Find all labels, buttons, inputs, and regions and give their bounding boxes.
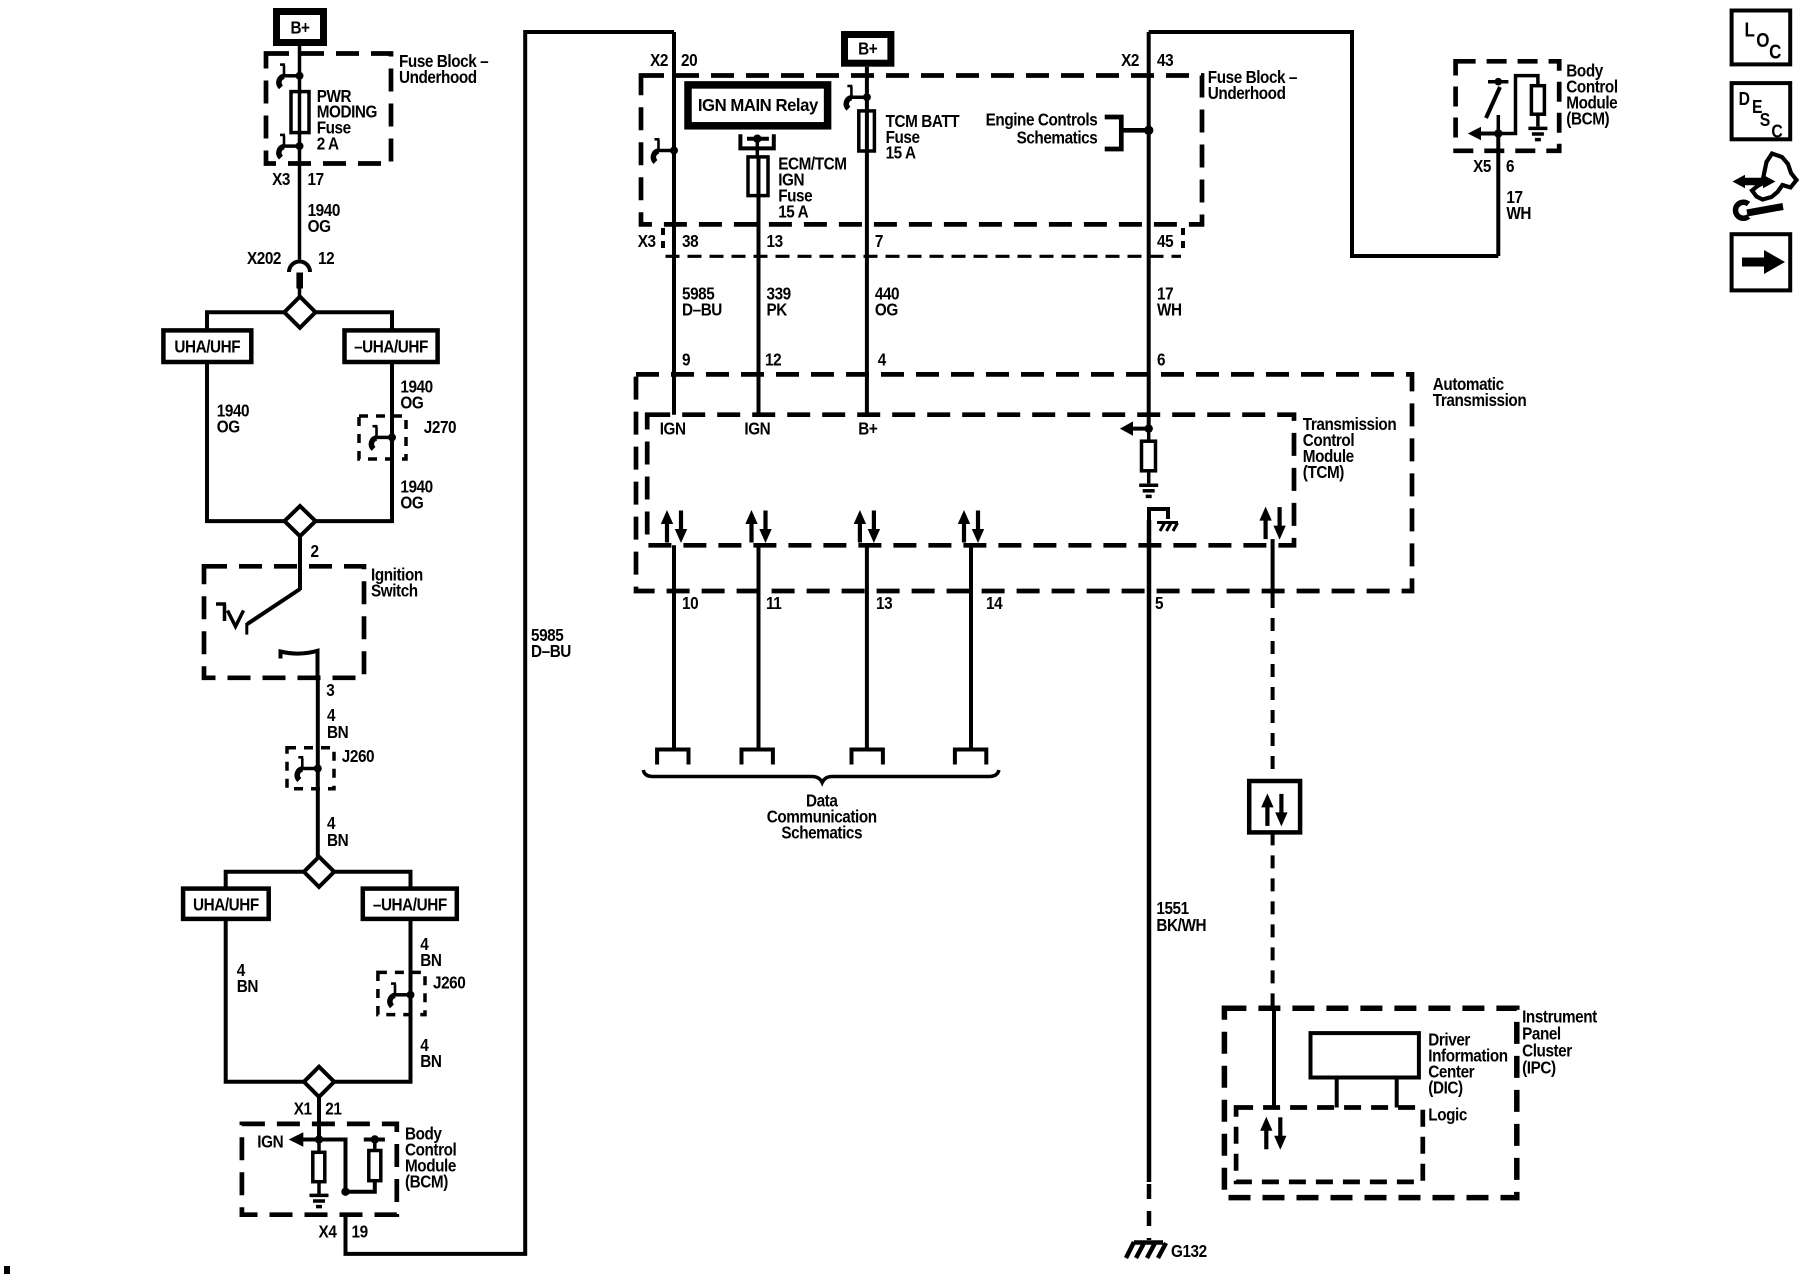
node -UHA/UHF (lower right) <box>363 889 457 919</box>
label DIC <box>1428 1029 1508 1097</box>
relay label box IGN MAIN Relay <box>688 85 828 126</box>
wire B+ down to TCM pin 4 <box>865 67 869 415</box>
splice pack J270 dashed box <box>359 416 406 459</box>
wire X5/6 down <box>1496 134 1500 257</box>
svg-text:BN: BN <box>420 1051 441 1071</box>
fuse block underhood (left) dashed box <box>266 54 391 164</box>
ground in BCM top <box>1528 128 1547 139</box>
wire label 17 WH right <box>1506 187 1531 223</box>
svg-text:J260: J260 <box>433 972 465 992</box>
svg-text:O: O <box>1756 28 1769 51</box>
wire label 5985 D-BU (long wire) <box>531 625 571 661</box>
svg-text:(DIC): (DIC) <box>1428 1077 1462 1097</box>
svg-text:PK: PK <box>767 299 788 319</box>
svg-text:Schematics: Schematics <box>1017 128 1098 148</box>
svg-text:J270: J270 <box>424 417 456 437</box>
svg-text:B+: B+ <box>290 17 310 37</box>
svg-text:19: 19 <box>352 1221 368 1241</box>
svg-text:3: 3 <box>326 680 334 700</box>
splice diamond S1 <box>284 297 315 328</box>
wire splice to UHA/UHF left <box>207 312 284 330</box>
label data communication schematics <box>767 790 877 842</box>
svg-text:6: 6 <box>1157 349 1165 369</box>
splice terminal inside J260 lower <box>390 984 415 1007</box>
TCM dashed box <box>647 415 1294 546</box>
svg-text:X1: X1 <box>294 1098 312 1118</box>
wire from B+ down to X202 <box>298 46 302 260</box>
icon DESC <box>1732 83 1791 142</box>
connector terminal on X2/20 wire <box>653 139 678 162</box>
svg-text:15 A: 15 A <box>778 201 808 221</box>
relay output bracket <box>740 134 773 157</box>
wire TCM pin 10 down <box>672 545 676 748</box>
body control module (bottom) dashed box <box>242 1124 397 1215</box>
svg-text:UHA/UHF: UHA/UHF <box>174 336 240 356</box>
engine controls schematics reference <box>986 110 1154 149</box>
svg-text:14: 14 <box>986 593 1003 613</box>
wire splice3 to -UHA/UHF right lower <box>334 872 410 889</box>
label Ignition Switch <box>371 564 423 600</box>
wire label 4 BN lower right upper <box>420 934 441 970</box>
svg-text:BN: BN <box>327 830 348 850</box>
svg-text:L: L <box>1745 18 1755 41</box>
svg-text:12: 12 <box>318 248 334 268</box>
brace data communication <box>643 770 999 783</box>
label PWR MODING Fuse 2A <box>317 86 377 154</box>
svg-text:17: 17 <box>308 169 324 189</box>
svg-text:20: 20 <box>681 50 697 70</box>
svg-text:X5: X5 <box>1473 156 1491 176</box>
label BCM top <box>1566 60 1617 128</box>
wire TCM pin 11 down <box>757 545 761 748</box>
svg-text:C: C <box>1769 40 1781 63</box>
body control module (top right) dashed box <box>1456 61 1560 151</box>
svg-text:BN: BN <box>237 976 258 996</box>
svg-text:D–BU: D–BU <box>682 299 722 319</box>
wire label 1551 BK/WH <box>1156 898 1206 935</box>
ignition switch contact mark <box>216 604 244 627</box>
label BCM bottom <box>405 1123 456 1191</box>
ignition switch output contact arc <box>281 651 318 678</box>
svg-text:X3: X3 <box>272 169 290 189</box>
svg-text:OG: OG <box>308 216 331 236</box>
svg-text:X3: X3 <box>638 231 656 251</box>
svg-text:IGN MAIN Relay: IGN MAIN Relay <box>698 94 819 115</box>
switch in BCM <box>1486 78 1508 134</box>
battery feed B+ symbol (middle) <box>845 35 891 64</box>
svg-text:(BCM): (BCM) <box>405 1171 448 1191</box>
ignition switch blade <box>247 589 300 635</box>
svg-text:(TCM): (TCM) <box>1303 462 1344 482</box>
wire BCM to fuse block X2/43 <box>1149 32 1499 256</box>
automatic transmission dashed box <box>636 374 1412 591</box>
terminal ends of data wires <box>657 750 688 765</box>
wire TCM pin 5 down to G132 <box>1147 520 1152 1182</box>
svg-text:X4: X4 <box>319 1221 338 1241</box>
connector X202 symbol <box>289 262 310 298</box>
connector terminal (bottom) on PWR MODING fuse <box>279 135 304 158</box>
fuse block underhood (middle) dashed box <box>641 76 1202 225</box>
connector terminal (top) on PWR MODING fuse <box>279 65 304 88</box>
label automatic transmission <box>1433 374 1527 410</box>
svg-text:OG: OG <box>875 299 898 319</box>
svg-text:UHA/UHF: UHA/UHF <box>193 894 259 914</box>
svg-text:WH: WH <box>1157 299 1182 319</box>
wire left branch down <box>207 362 285 521</box>
TCM pin function labels <box>660 418 878 438</box>
serial data box with arrows <box>1249 781 1300 832</box>
svg-text:BN: BN <box>420 950 441 970</box>
instrument panel cluster dashed box <box>1224 1008 1516 1197</box>
TCM internal arrow on pin 6 <box>1120 421 1153 435</box>
fuse ECM/TCM IGN <box>748 153 847 221</box>
node junction in BCM <box>341 1188 349 1196</box>
svg-text:7: 7 <box>875 231 883 251</box>
svg-text:2: 2 <box>311 541 319 561</box>
splice diamond S3 <box>304 857 334 887</box>
connector X3 row second dashed line <box>666 255 1182 258</box>
connector X202 pin 12 label <box>247 248 334 268</box>
resistor in TCM <box>1142 429 1156 484</box>
connector terminal on B+ wire <box>846 86 871 109</box>
wire ignition switch to J260 <box>316 678 320 857</box>
wire label 5985 D-BU <box>682 283 722 319</box>
label IPC <box>1522 1006 1598 1077</box>
wire right branch down through J270 <box>316 362 393 521</box>
wire label 1940 OG <box>308 200 340 236</box>
wire X4 19 to fuse block X2 20 (long loop) <box>346 32 675 1254</box>
logic dashed box <box>1236 1108 1423 1182</box>
svg-text:–UHA/UHF: –UHA/UHF <box>373 894 447 914</box>
label fuse block middle <box>1208 67 1297 103</box>
svg-text:IGN: IGN <box>660 418 686 438</box>
ground G132 symbol <box>1126 1242 1166 1258</box>
wire TCM pin 13 down <box>865 545 869 748</box>
svg-text:BN: BN <box>327 722 348 742</box>
splice terminal inside J260 <box>297 757 322 780</box>
wire label 4 BN lower left <box>237 960 258 996</box>
svg-text:6: 6 <box>1506 156 1514 176</box>
svg-text:WH: WH <box>1506 203 1531 223</box>
splice diamond S4 <box>304 1067 334 1097</box>
svg-text:5: 5 <box>1155 593 1163 613</box>
node UHA/UHF (lower left) <box>183 889 269 919</box>
wire X2/20 down to TCM pin 9 <box>672 32 676 415</box>
svg-text:38: 38 <box>682 231 698 251</box>
pin label X2 20 <box>650 50 697 70</box>
dashed wire to G132 <box>1147 1184 1152 1240</box>
svg-text:43: 43 <box>1157 50 1173 70</box>
wire label 1940 OG below J270 <box>400 476 432 512</box>
svg-text:Logic: Logic <box>1428 1104 1467 1124</box>
svg-text:–UHA/UHF: –UHA/UHF <box>354 336 428 356</box>
svg-text:2 A: 2 A <box>317 133 339 153</box>
wire lower-right branch through J260 <box>334 919 410 1082</box>
svg-text:4: 4 <box>878 349 887 369</box>
resistor in BCM top <box>1498 76 1544 134</box>
svg-text:13: 13 <box>876 593 892 613</box>
splice pack J260 dashed box (upper) <box>287 748 334 789</box>
svg-text:IGN: IGN <box>257 1131 283 1151</box>
svg-text:Underhood: Underhood <box>1208 83 1286 103</box>
pin labels X3 row <box>638 231 1174 251</box>
wire into ignition switch <box>298 536 302 590</box>
splice pack J260 dashed box (lower) <box>378 972 425 1014</box>
pin label X2 43 <box>1121 50 1173 70</box>
wire label 4 BN below J260 <box>327 813 348 850</box>
svg-text:S: S <box>1760 109 1770 131</box>
svg-text:X202: X202 <box>247 248 281 268</box>
resistor R1 in BCM <box>313 1140 325 1196</box>
pin label X4 19 <box>319 1221 368 1241</box>
wire X2/43 down to TCM pin 6 <box>1147 32 1151 429</box>
svg-text:OG: OG <box>217 416 240 436</box>
svg-text:X2: X2 <box>650 50 668 70</box>
wire label 17 WH <box>1157 283 1182 319</box>
svg-text:X2: X2 <box>1121 50 1139 70</box>
icon LOC <box>1732 11 1791 65</box>
resistor R2 in BCM <box>346 1135 385 1191</box>
ground in BCM <box>310 1195 329 1206</box>
node -UHA/UHF (upper right) <box>345 330 438 362</box>
wire into BCM X1 21 <box>317 1097 321 1140</box>
svg-text:Schematics: Schematics <box>781 822 862 842</box>
pin label X3 17 <box>272 169 324 189</box>
TCM serial data arrow pairs <box>661 510 687 543</box>
ignition switch dashed box <box>204 566 364 678</box>
svg-text:11: 11 <box>766 593 781 613</box>
page artifact dot bottom-left <box>4 1266 10 1274</box>
arrow pair in logic box <box>1260 1117 1286 1150</box>
svg-text:IGN: IGN <box>744 418 770 438</box>
ground in TCM <box>1139 485 1158 496</box>
wire fuse 13 down to TCM pin 12 <box>757 157 761 415</box>
icon forward arrow <box>1732 234 1791 290</box>
wire splice3 to UHA/UHF left lower <box>226 872 304 889</box>
svg-text:G132: G132 <box>1171 1241 1207 1261</box>
svg-text:13: 13 <box>767 231 783 251</box>
connector X3 tick left <box>661 228 665 253</box>
wire label 1940 OG left branch <box>217 400 249 436</box>
svg-text:10: 10 <box>682 593 698 613</box>
wire label 1940 OG right branch upper <box>400 376 432 412</box>
svg-text:21: 21 <box>325 1098 341 1118</box>
svg-text:Transmission: Transmission <box>1433 390 1527 410</box>
pin label X5 6 <box>1473 156 1514 176</box>
wire TCM pin 14 down <box>969 545 973 748</box>
svg-text:12: 12 <box>765 349 781 369</box>
TCM pin labels 9 12 4 6 <box>682 349 1165 369</box>
svg-text:C: C <box>1771 120 1782 142</box>
wire from BCM junction to X4 19 <box>319 1140 346 1192</box>
splice terminal inside J270 <box>371 426 396 449</box>
label fuse block left <box>399 51 488 87</box>
wire label 4 BN <box>327 705 348 742</box>
svg-text:D–BU: D–BU <box>531 641 571 661</box>
svg-text:B+: B+ <box>858 38 878 58</box>
node UHA/UHF (upper left) <box>163 330 251 362</box>
DIC display box <box>1311 1033 1419 1107</box>
splice diamond S2 <box>285 506 316 536</box>
svg-text:45: 45 <box>1157 231 1173 251</box>
svg-text:BK/WH: BK/WH <box>1156 915 1206 935</box>
output arrow in BCM <box>1468 127 1503 140</box>
svg-text:15 A: 15 A <box>886 142 916 162</box>
svg-text:Underhood: Underhood <box>399 67 477 87</box>
svg-text:D: D <box>1739 88 1750 110</box>
svg-text:Switch: Switch <box>371 580 418 600</box>
fuse TCM BATT <box>859 111 961 163</box>
svg-text:J260: J260 <box>342 746 374 766</box>
IGN signal arrow in BCM <box>257 1131 323 1151</box>
fuse PWR MODING F <box>291 92 309 133</box>
svg-text:9: 9 <box>682 349 690 369</box>
pin labels 10 11 13 14 5 <box>682 593 1163 613</box>
svg-text:(IPC): (IPC) <box>1522 1057 1556 1077</box>
wire label 339 PK <box>767 283 791 319</box>
svg-text:B+: B+ <box>858 418 878 438</box>
battery feed B+ symbol (left) <box>277 12 324 43</box>
pin label X1 21 <box>294 1098 342 1118</box>
label TCM <box>1303 414 1397 482</box>
wire lower-left branch <box>226 919 304 1082</box>
wire label 440 OG <box>875 283 899 319</box>
svg-text:OG: OG <box>400 492 423 512</box>
dashed wire TCM to IPC serial data <box>1273 539 1274 1107</box>
connector X3 tick right <box>1181 228 1185 253</box>
TCM internal chassis ground for pin 5 <box>1149 509 1178 531</box>
wire label 4 BN below J260 lower <box>420 1035 441 1071</box>
svg-text:(BCM): (BCM) <box>1566 108 1609 128</box>
svg-text:OG: OG <box>400 392 423 412</box>
wire splice to -UHA/UHF right <box>316 312 393 330</box>
icon wiring/repair <box>1733 154 1797 219</box>
